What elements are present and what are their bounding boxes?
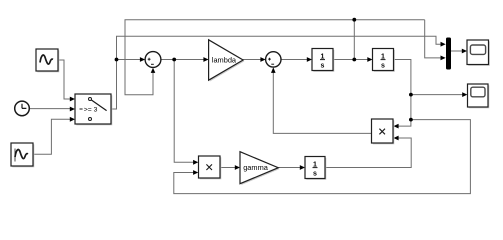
svg-text:gamma: gamma xyxy=(243,163,269,172)
wire: clock to switch input 2 xyxy=(29,108,70,110)
scope block Scope2 xyxy=(468,84,490,108)
sine wave source Sine1 xyxy=(36,49,59,72)
scope block Scope1 xyxy=(467,40,490,66)
node: scope2 branch junction xyxy=(409,93,413,97)
gain block lambda xyxy=(209,40,245,82)
wire: outer top wire, left leg feeds sum1 minus input, right leg feeds mux input 2 xyxy=(125,20,441,95)
integrator block 1/s (first) xyxy=(312,49,334,72)
svg-text:lambda: lambda xyxy=(212,55,237,64)
wire: gamma output to integrator3 xyxy=(278,167,300,169)
wire: integrator1 output to integrator2, riser to outer top wire xyxy=(333,20,368,60)
clock source xyxy=(15,101,30,116)
mux block xyxy=(446,38,451,70)
svg-text:s: s xyxy=(381,62,385,69)
wire: sum1 output to lambda gain, branch down to product1 input 1 xyxy=(161,60,204,163)
node: sum1-output junction xyxy=(172,58,176,62)
node: loop branch junction xyxy=(409,118,413,122)
sine wave source Sine2 xyxy=(11,143,34,167)
wire: integrator3 output up to product2 input 2 xyxy=(325,138,411,168)
wire: mux output to scope1 xyxy=(451,50,462,52)
svg-text:s: s xyxy=(313,170,317,177)
wire: lambda output to sum2 xyxy=(243,59,261,61)
svg-text:s: s xyxy=(321,62,325,69)
wire: sum2 output to integrator1 xyxy=(281,59,307,61)
product block (x) lower left xyxy=(199,156,222,179)
svg-text:>= 3: >= 3 xyxy=(84,107,98,114)
gain block gamma xyxy=(240,152,280,185)
node: outer top wire junction xyxy=(352,18,356,22)
integrator block 1/s (second) xyxy=(373,49,395,72)
node: switch-output junction xyxy=(115,58,119,62)
sum block Sum2 xyxy=(266,52,281,67)
wire: product1 output to gamma gain xyxy=(220,167,235,169)
node: integrator1-output junction xyxy=(352,58,356,62)
product block (x) flipped, right side xyxy=(372,119,395,144)
wire: integrator2 output down, to scope2, to product2 input1, long loop to product1 input 2 xyxy=(174,60,471,194)
switch block with criteria >= 3 xyxy=(75,94,112,125)
sum block Sum1 xyxy=(145,52,161,68)
wire: product2 output to sum2 minus input xyxy=(273,73,371,134)
wire: sine2 to switch input 3 xyxy=(33,119,71,154)
integrator block 1/s (third) xyxy=(305,157,326,180)
wire: sine1 to switch input 1 xyxy=(58,60,71,99)
wire: switch output riser to sum1 and to mux input 1 (inner top wire) xyxy=(111,36,441,109)
